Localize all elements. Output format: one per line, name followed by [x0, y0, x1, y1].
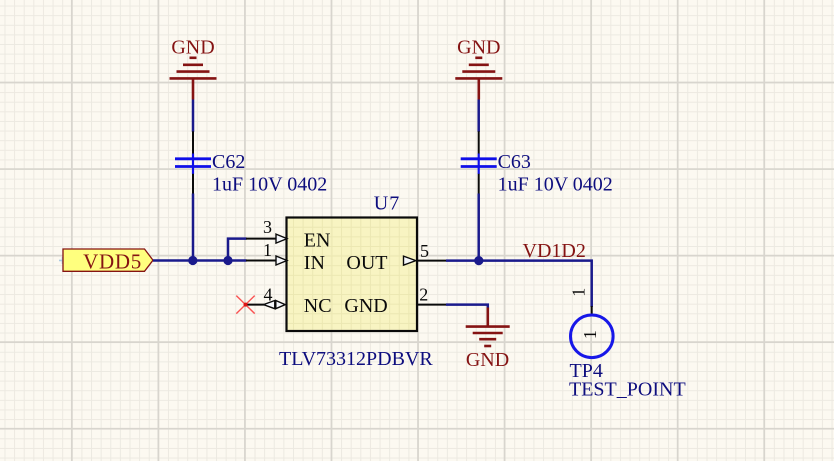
svg-text:TLV73312PDBVR: TLV73312PDBVR	[279, 348, 433, 370]
wire GND1 to C62	[192, 100, 195, 132]
pin 2 GND	[344, 284, 446, 317]
wire C63 to OUT net	[477, 194, 480, 261]
svg-text:IN: IN	[304, 252, 325, 274]
power port GND1 (top left)	[170, 37, 217, 100]
wire C62 to node	[192, 194, 195, 261]
svg-text:GND: GND	[457, 37, 500, 59]
svg-text:5: 5	[420, 241, 429, 261]
svg-text:TEST_POINT: TEST_POINT	[569, 379, 686, 401]
svg-text:NC: NC	[304, 295, 332, 317]
svg-text:C63: C63	[498, 151, 531, 173]
svg-text:OUT: OUT	[346, 252, 387, 274]
wire GND2 to C63	[477, 100, 480, 132]
wire VDD5 to IN pin	[153, 259, 247, 262]
svg-text:C62: C62	[212, 151, 245, 173]
pin 3 EN	[246, 217, 330, 251]
pin 4 NC with bidirectional arrows	[246, 285, 332, 317]
regulator U7 body	[287, 218, 418, 332]
svg-text:4: 4	[264, 285, 273, 305]
svg-text:1: 1	[569, 288, 589, 297]
svg-text:GND: GND	[171, 37, 214, 59]
svg-text:1uF 10V 0402: 1uF 10V 0402	[498, 174, 613, 196]
wire EN branch	[228, 239, 247, 261]
svg-text:2: 2	[419, 284, 428, 304]
capacitor C62	[175, 131, 211, 193]
svg-text:1: 1	[580, 330, 600, 339]
pin 5 OUT	[346, 241, 446, 274]
capacitor C63	[461, 131, 497, 193]
pin 1 IN	[246, 240, 325, 274]
svg-text:3: 3	[263, 217, 272, 237]
svg-text:VDD5: VDD5	[83, 249, 142, 273]
svg-text:GND: GND	[466, 349, 509, 371]
junction node at C62 branch	[188, 256, 197, 265]
svg-text:VD1D2: VD1D2	[523, 240, 586, 262]
power port GND2 (top middle)	[455, 37, 502, 100]
test point TP4	[569, 288, 613, 358]
svg-text:EN: EN	[304, 230, 331, 252]
junction node at EN branch	[223, 256, 232, 265]
power port GND3 (below GND pin)	[466, 308, 510, 372]
no-ERC marker (red X) on NC pin	[236, 296, 254, 314]
junction node at C63 branch	[474, 256, 483, 265]
svg-text:1: 1	[263, 240, 272, 260]
wire OUT net	[446, 261, 592, 307]
svg-text:U7: U7	[374, 193, 400, 215]
wire GND pin net	[446, 305, 488, 309]
power port VDD5	[59, 249, 153, 273]
svg-text:1uF 10V 0402: 1uF 10V 0402	[212, 174, 327, 196]
svg-text:GND: GND	[344, 295, 387, 317]
